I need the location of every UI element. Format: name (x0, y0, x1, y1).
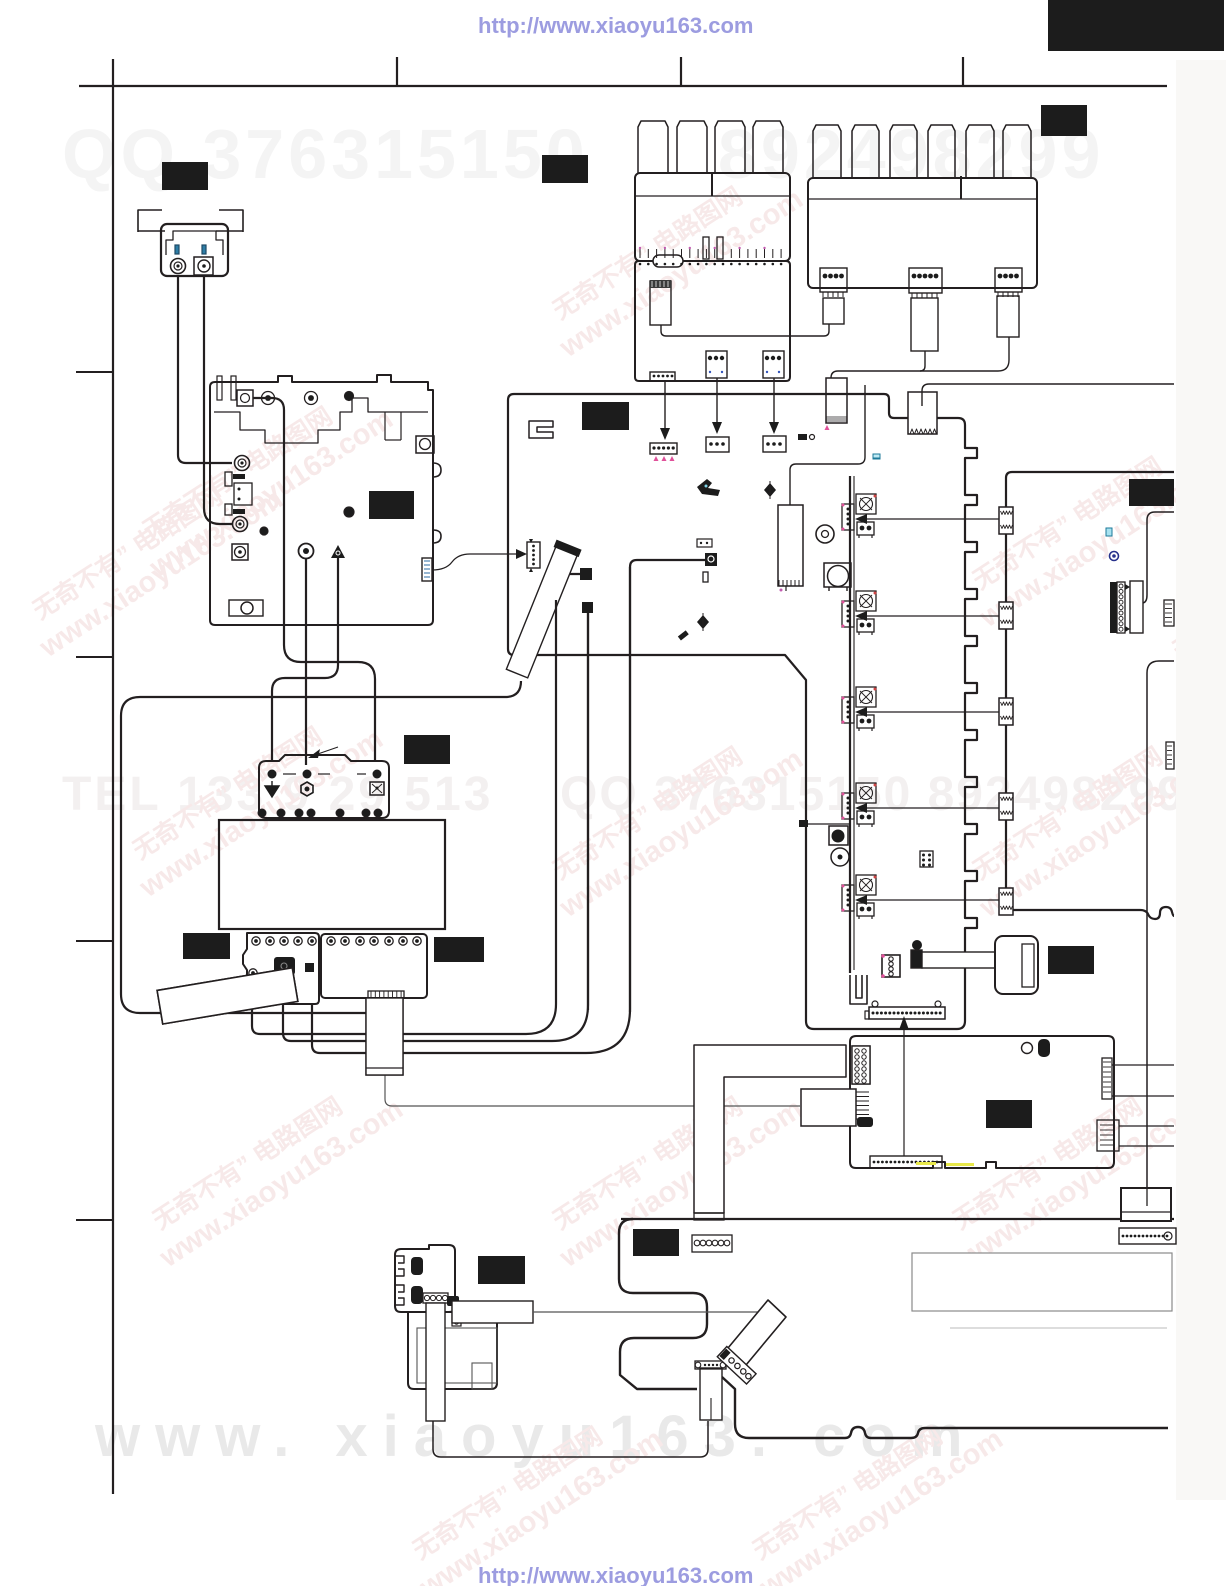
amp-L relay (650, 281, 671, 325)
output board edge connector 4 (999, 793, 1013, 820)
tuner big nut (299, 544, 314, 559)
wire amp-L relay link (661, 324, 829, 336)
board L2 outline (321, 934, 427, 998)
output small header right (1166, 742, 1174, 769)
serpentine wire (619, 1219, 707, 1389)
tuner RCA 3 (232, 544, 248, 560)
output board edge connector 2 (999, 602, 1013, 629)
main tick diag (678, 630, 689, 640)
tuner inner chassis line (214, 398, 428, 443)
output cyan part (1106, 528, 1112, 536)
relay group 3 part (857, 715, 874, 728)
wire bottom long horizontal (621, 1218, 1174, 1220)
main bottom bracket (850, 975, 867, 1004)
amp-R connector C (995, 268, 1022, 292)
speaker pin strip (452, 1306, 461, 1326)
black redaction box tuner (369, 491, 414, 519)
psu left header (852, 1046, 870, 1084)
tuner RCA 2 (233, 517, 248, 532)
tuner screw B (305, 392, 318, 405)
psu right header 2 (1097, 1120, 1119, 1151)
power transformer (219, 820, 445, 929)
display flex cable (504, 540, 581, 679)
psu left header overlay (852, 1046, 870, 1084)
black redaction box terminal (404, 735, 450, 764)
amp-R connector C plug (997, 296, 1019, 337)
tuner part b1 (233, 474, 245, 479)
tuner part r3 (225, 504, 232, 515)
amp-L heatsink body (635, 173, 790, 261)
speaker 4circ connector (423, 1293, 448, 1303)
main connector tall (826, 378, 847, 423)
page tick left 1 (76, 371, 113, 373)
amp-L connector 3pin B (763, 351, 784, 378)
board L2 connector (368, 991, 404, 998)
wire U1 boards to main (252, 600, 556, 1034)
antenna RCA jack left (171, 259, 186, 274)
ac inlet block (1121, 1188, 1171, 1221)
tuner bottom bracket (229, 600, 263, 616)
amp-L waist pill (653, 255, 683, 267)
wire psu right 2b (1119, 1145, 1174, 1147)
tuner board mount tab 2 (231, 376, 236, 400)
page tick left 4 (76, 1219, 113, 1221)
black redaction box antenna (162, 162, 208, 190)
tuner part r1 (225, 472, 232, 486)
relay group 5 connector (842, 885, 854, 911)
speaker board top part (395, 1245, 455, 1312)
antenna bracket (138, 210, 162, 232)
main opto part (697, 539, 712, 547)
wire amp-L 5pin down arrow (664, 381, 666, 431)
terminal screws bottom (258, 809, 266, 817)
speaker jack 2 (411, 1286, 423, 1304)
tuner jack square (237, 390, 253, 406)
relay group 4 part (857, 811, 874, 824)
ribbon L2 (366, 998, 403, 1075)
speaker jack 1 (411, 1257, 423, 1275)
tuner screw F (344, 507, 354, 517)
relay group 3 relay (856, 687, 876, 707)
tuner RCA 1 (235, 456, 250, 471)
output blue ring (1110, 552, 1119, 561)
antenna terminal mark 1 (175, 245, 179, 254)
black redaction box speaker (478, 1256, 525, 1284)
black redaction box heat-right (1041, 105, 1087, 136)
note box underline (950, 1327, 1167, 1329)
amp-R connector B plug (911, 298, 938, 351)
output right connector (1164, 600, 1174, 626)
relay group 1 relay (856, 494, 876, 514)
wire amp-R B down (920, 351, 925, 371)
amp-L heatsink divider (711, 173, 713, 196)
main 4circ connector (882, 955, 900, 977)
main bottom pin strip (869, 1007, 945, 1019)
black redaction box transformer-left (183, 933, 230, 959)
bottom pin strip right (1119, 1228, 1176, 1244)
page border vertical rule (112, 59, 114, 1494)
board L1 partR (305, 963, 314, 972)
main diamond 2 (697, 615, 709, 629)
tuner board outline (210, 375, 433, 625)
main pin block (920, 851, 933, 867)
wire tuner to main arrow (432, 554, 518, 570)
output board edge connector 5 (999, 888, 1013, 915)
tuner edge connector CN (422, 558, 432, 581)
relay group 1 connector (842, 504, 854, 530)
amp-L cap 2 (717, 237, 723, 259)
output board edge connector 1 (999, 507, 1013, 534)
wire ribbon bottom loop (433, 1421, 708, 1457)
amp-R heatsink body (808, 178, 1037, 288)
main lever switch (697, 479, 720, 496)
watermark pink diagonal repeats (125, 375, 398, 584)
page tick top 1 (396, 57, 398, 86)
amp-R connector A (820, 268, 847, 292)
amp-L connector 5pin (650, 372, 675, 381)
tuner screw C (345, 392, 354, 401)
main ribbon block (995, 936, 1038, 994)
relay group 2 connector (842, 601, 854, 627)
relay group 2 part (857, 619, 874, 632)
main board outline (508, 394, 977, 1029)
psu ribbon connector (692, 1235, 732, 1252)
wire amp-R bus (831, 337, 1009, 378)
board L1 screwB (249, 969, 257, 977)
wire relay arrow 3 (863, 711, 1000, 713)
output board edge connector 3 (999, 698, 1013, 725)
main wire stub (804, 823, 850, 825)
psu bottom connector (870, 1156, 942, 1168)
wire sq1 (580, 568, 592, 580)
wire relay arrow 5 (863, 899, 1000, 901)
tuner board mount tab 1 (217, 376, 222, 400)
wire psu right 2a (1119, 1125, 1174, 1127)
amp-R heatsink divider (960, 176, 962, 199)
main edge connector 5pin (527, 542, 540, 568)
wire tuner triangle down (272, 558, 338, 762)
amp-L pin row (639, 249, 641, 258)
note box (912, 1253, 1172, 1311)
board L1 outline (243, 933, 319, 1004)
speaker board lower part (408, 1312, 497, 1389)
amp-L connector 3pin A (706, 351, 727, 378)
wire sq2 (582, 602, 593, 613)
relay group 3 connector (842, 697, 854, 723)
psu right header 1 (1102, 1058, 1112, 1099)
amp-R heatsink fins (813, 125, 841, 178)
main diamond 1 (764, 483, 776, 497)
antenna jack board outline (161, 224, 228, 276)
relay group 4 connector (842, 793, 854, 819)
amp-L cap 1 (703, 237, 709, 259)
wire amp-L 3pinB down arrow (773, 378, 775, 425)
ac plug connector (717, 1347, 756, 1385)
page tick left 3 (76, 940, 113, 942)
tuner screw D (416, 436, 434, 453)
wire antenna right to tuner (204, 508, 233, 524)
amp-R heatsink line (808, 198, 1037, 200)
centre tube (700, 1368, 722, 1420)
output board bottom S (1140, 907, 1174, 919)
black redaction box main-top (582, 402, 629, 430)
amp-R connector A plug (823, 298, 844, 324)
relay rail (849, 476, 851, 973)
wire psu right 1a (1112, 1064, 1174, 1066)
tuner part b2 (233, 509, 245, 514)
tuner screw E (260, 527, 268, 535)
main board bracket part (529, 421, 553, 438)
psu ribbon L (694, 1045, 846, 1213)
wire black part down (630, 560, 705, 1012)
ribbon L2 overlay (366, 998, 403, 1075)
psu relay block (801, 1089, 856, 1126)
main black dot square (829, 826, 848, 845)
main relay driver (778, 505, 803, 586)
wire display loop (121, 681, 521, 1013)
page tick top 2 (680, 57, 682, 86)
psu circle part (1022, 1043, 1033, 1054)
relay group 2 relay (856, 591, 876, 611)
relay group 5 part (857, 903, 874, 916)
page tick top 3 (962, 57, 964, 86)
ribbon speaker (426, 1303, 445, 1421)
speaker board cutout 2 (395, 1285, 404, 1305)
terminal screws top (268, 770, 277, 779)
wire main relay up (790, 385, 865, 505)
scan edge band (1176, 60, 1226, 1500)
board L2 screws (327, 937, 335, 945)
amp-L pcb outline (635, 261, 790, 381)
wire output jack 1 (1142, 512, 1174, 603)
black redaction box bottom-centre (633, 1229, 679, 1256)
antenna jack inner panel (166, 231, 223, 255)
relay rail cyan (873, 454, 880, 458)
page tick left 2 (76, 656, 113, 658)
wire antenna left to tuner (178, 455, 232, 463)
terminal board outline (259, 755, 389, 818)
tuner right edge bump 1 (433, 463, 441, 477)
wire tuner nut down (305, 558, 307, 765)
tuner part r2 (234, 483, 252, 505)
relay group 4 relay (856, 783, 876, 803)
wire relay arrow 4 (863, 807, 1000, 809)
tuner right edge bump 2 (433, 530, 441, 543)
wire tuner jack down (253, 398, 375, 762)
main part jumper (798, 434, 807, 440)
speaker board inner (417, 1328, 497, 1383)
wire amp-R C to edge (922, 384, 1174, 406)
black redaction box output (1129, 479, 1174, 506)
psu board outline (850, 1036, 1114, 1168)
wire output right lower (1147, 661, 1174, 1188)
tuner triangle terminal (331, 545, 345, 558)
speaker black connector (447, 1296, 459, 1306)
relay group 5 relay (856, 875, 876, 895)
main connector 3pin A (706, 437, 729, 452)
wire ribbon L2 to psu (385, 1075, 800, 1106)
amp-R connector B (909, 268, 942, 293)
main switch part (705, 553, 717, 566)
page border horizontal rule (79, 85, 1167, 87)
main tick small (703, 572, 708, 582)
output connector block (1110, 582, 1117, 633)
svg-text:http://www.xiaoyu163.com: http://www.xiaoyu163.com (478, 1563, 753, 1586)
label strip diagonal (157, 968, 298, 1024)
serpentine wire right (722, 1377, 1168, 1438)
speaker board inner small (472, 1363, 492, 1389)
wire psu up arrow (903, 1026, 905, 1156)
annotation arrow (312, 747, 338, 756)
main double circle (816, 525, 834, 543)
psu ribbon end (694, 1213, 724, 1220)
wire antenna left down (177, 276, 179, 455)
wire relay arrow 1 (863, 518, 1000, 520)
antenna RCA jack right (194, 257, 213, 275)
wire amp-L 3pinA down arrow (716, 378, 718, 425)
output board outline (1006, 472, 1174, 910)
terminal square symbol (370, 782, 384, 795)
main ribbon right (912, 940, 922, 950)
relay group 1 part (857, 522, 874, 535)
wire psu right 1b (1112, 1095, 1174, 1097)
tuner inner posts (384, 412, 386, 440)
terminal nut symbol (301, 782, 313, 796)
terminal arrow symbol (265, 781, 279, 797)
black redaction box right-mid (1048, 946, 1094, 974)
main coil square (824, 563, 851, 587)
amp-L heatsink line (635, 195, 790, 197)
tuner screw A (262, 392, 275, 405)
black redaction box heat-left (542, 155, 588, 183)
speaker board cutout 1 (395, 1256, 404, 1276)
wire relay arrow 2 (863, 615, 1000, 617)
main connector 5pin (650, 443, 677, 454)
svg-text:http://www.xiaoyu163.com: http://www.xiaoyu163.com (478, 13, 753, 38)
wire U3 boards to main (312, 567, 630, 1053)
black redaction box transformer-right (434, 937, 484, 962)
centre tube connector (695, 1361, 726, 1369)
black redaction box psu (986, 1100, 1032, 1128)
main ring (831, 848, 849, 866)
main connector 3pin B (763, 436, 786, 452)
svg-text:QQ 376315150: QQ 376315150 (62, 115, 589, 193)
ac plug diagonal (723, 1300, 786, 1371)
wire antenna right down (203, 276, 205, 508)
board L1 black part (274, 957, 295, 975)
main part cyan1 (873, 455, 880, 459)
main connector step (908, 392, 937, 434)
black redaction box top-right (1048, 0, 1224, 51)
speaker white bar (452, 1301, 533, 1323)
board L1 screws (252, 937, 260, 945)
wire speaker bar to plug (533, 1311, 772, 1313)
amp-L heatsink fins (638, 121, 668, 173)
antenna terminal mark 2 (202, 245, 206, 254)
wire U2 boards to main (283, 613, 588, 1041)
label strip diagonal overlay (157, 968, 298, 1024)
